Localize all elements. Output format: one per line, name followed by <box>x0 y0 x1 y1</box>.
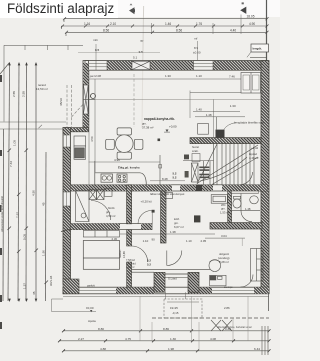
svg-text:2.55: 2.55 <box>22 91 26 97</box>
small door arc at bath <box>138 211 152 225</box>
dolgozó door arc <box>241 275 254 288</box>
svg-text:37,38 m²: 37,38 m² <box>142 126 153 130</box>
level mark +0.00 <box>164 125 177 133</box>
svg-text:1.16: 1.16 <box>84 22 90 26</box>
mid wall (bath top) <box>71 185 268 191</box>
svg-text:4,49 m²: 4,49 m² <box>249 156 259 160</box>
WC door arc <box>241 211 252 222</box>
stair door arc <box>240 172 253 185</box>
understair shelf text bars <box>184 155 209 179</box>
svg-text:pe=2.08: pe=2.08 <box>90 74 101 78</box>
stair top wall <box>190 130 261 144</box>
kitchen fridge cabinets <box>74 136 86 159</box>
svg-text:90: 90 <box>152 238 156 242</box>
svg-text:útburkolat széle, kocsibeálló: útburkolat széle, kocsibeálló <box>0 195 4 232</box>
kitchen dim 8.48 <box>150 180 185 182</box>
right witness line to top <box>266 0 268 61</box>
svg-text:1.90: 1.90 <box>42 250 46 256</box>
hall door arc to vestibule <box>167 251 182 266</box>
dolgozó label <box>218 234 230 310</box>
svg-text:Földszinti alaprajz: Földszinti alaprajz <box>7 1 114 16</box>
dashed road line <box>152 317 269 319</box>
top dimension ticks <box>61 17 269 34</box>
faint level line <box>78 52 160 54</box>
svg-text:S.Lásd: S.Lásd <box>168 277 177 281</box>
section dashed line <box>89 98 261 100</box>
WC lintel band <box>232 191 259 194</box>
top wall window right <box>194 64 214 67</box>
svg-text:Apola: Apola <box>88 319 96 323</box>
bed <box>83 241 119 270</box>
wardrobe label box <box>247 44 269 57</box>
west wall upper (living) <box>83 61 89 132</box>
svg-text:hálósz.: hálósz. <box>118 249 122 258</box>
svg-text:4,59 m²: 4,59 m² <box>106 214 116 218</box>
svg-text:5.1: 5.1 <box>133 56 138 60</box>
svg-text:4.50: 4.50 <box>32 190 36 196</box>
level mark mfn <box>93 37 201 55</box>
title bar background <box>0 0 280 17</box>
kitchen dim 4.96 <box>89 161 160 163</box>
leader diagonal top-left <box>0 63 10 75</box>
svg-text:-0,15: -0,15 <box>172 311 179 315</box>
hall bottom wall line <box>132 269 210 272</box>
bottom wall band <box>63 279 269 294</box>
svg-text:8.80: 8.80 <box>98 327 104 331</box>
extra rotated numbers <box>13 140 46 256</box>
dolgozó desk <box>210 275 226 286</box>
svg-text:9,28 m²: 9,28 m² <box>219 260 229 264</box>
svg-text:8.48: 8.48 <box>162 177 168 181</box>
bath shelf edge <box>151 211 153 225</box>
west wall lower <box>61 128 73 284</box>
plinth outer line <box>63 296 269 298</box>
svg-text:6.44: 6.44 <box>254 347 260 351</box>
svg-text:1.05: 1.05 <box>13 140 17 146</box>
svg-text:5.2: 5.2 <box>147 263 151 267</box>
stair small boxes <box>192 154 200 162</box>
svg-text:1,53 m²: 1,53 m² <box>220 211 230 215</box>
eaves line top right <box>250 56 267 58</box>
svg-text:2.10: 2.10 <box>110 22 116 26</box>
north arrow icon <box>240 2 246 14</box>
interior line below top wall <box>89 78 241 80</box>
svg-text:1.10: 1.10 <box>143 239 149 243</box>
hall label <box>174 217 184 229</box>
svg-text:8.86: 8.86 <box>163 327 169 331</box>
svg-text:6,07 m²: 6,07 m² <box>174 225 184 229</box>
entrance vestibule stubs <box>154 272 199 292</box>
witness lines to bottom dims <box>140 296 248 351</box>
lower wing top wall <box>63 128 89 132</box>
dark appliance marks <box>185 171 189 178</box>
svg-text:falban tokozódott szerelvények: falban tokozódott szerelvények <box>150 193 185 196</box>
svg-text:+0,20 kő: +0,20 kő <box>141 200 153 204</box>
svg-text:4.88: 4.88 <box>100 347 106 351</box>
svg-text:48/19: 48/19 <box>59 98 63 106</box>
speaker icon <box>129 3 135 14</box>
west upper french door X <box>83 85 95 114</box>
svg-text:7.46: 7.46 <box>229 75 235 79</box>
bottom dimension lines <box>59 331 269 351</box>
scan fold line <box>142 6 145 62</box>
svg-text:nappali-konyha-étk.: nappali-konyha-étk. <box>144 117 175 121</box>
WC fixtures <box>230 194 260 211</box>
svg-text:13,50 m²: 13,50 m² <box>36 87 48 91</box>
bedroom door arc <box>132 246 148 262</box>
svg-text:2.27: 2.27 <box>78 337 84 341</box>
svg-text:5.05: 5.05 <box>23 234 27 240</box>
svg-text:0.86: 0.86 <box>225 327 231 331</box>
svg-text:1.76: 1.76 <box>196 22 202 26</box>
radiator left of WC <box>211 195 227 204</box>
svg-text:parkét: parkét <box>87 284 95 288</box>
svg-text:1.37: 1.37 <box>23 283 27 289</box>
svg-text:9.5: 9.5 <box>139 50 144 54</box>
stairs <box>197 144 258 185</box>
left margin clipped marks <box>0 75 2 329</box>
svg-text:8.9: 8.9 <box>194 46 199 50</box>
svg-text:19×25: 19×25 <box>170 306 178 310</box>
hall basin <box>164 193 173 199</box>
dining table <box>106 128 143 159</box>
svg-text:1.30: 1.30 <box>170 337 176 341</box>
svg-text:±0,00: ±0,00 <box>86 306 94 310</box>
svg-text:mf: mf <box>194 37 197 41</box>
bedroom right wall segments <box>127 230 132 246</box>
svg-text:45: 45 <box>32 291 36 295</box>
top wall band <box>85 61 268 71</box>
small 5.2 marks near pantry <box>173 172 177 180</box>
svg-text:csempe: csempe <box>224 286 233 289</box>
road X marks <box>211 320 232 331</box>
svg-text:90/1.94: 90/1.94 <box>49 275 53 286</box>
svg-text:7.97: 7.97 <box>16 212 20 218</box>
hall left wall <box>161 191 166 243</box>
svg-text:1.46: 1.46 <box>165 22 171 26</box>
svg-text:4.08: 4.08 <box>210 337 216 341</box>
top wall window left <box>85 61 107 71</box>
svg-text:4.40: 4.40 <box>230 28 236 32</box>
bath door arc <box>91 201 111 221</box>
svg-text:1.10: 1.10 <box>196 74 202 78</box>
svg-text:3.04: 3.04 <box>221 234 227 238</box>
svg-text:2.55: 2.55 <box>12 91 16 97</box>
svg-text:14,86: 14,86 <box>122 251 126 258</box>
wardrobe top right <box>241 73 261 94</box>
bottom dim arrows/ticks <box>58 329 271 352</box>
kitchen counter <box>95 161 147 186</box>
bedroom top wall <box>71 224 153 230</box>
top dimension line 1 <box>62 19 268 36</box>
svg-text:1.30: 1.30 <box>230 104 236 108</box>
svg-text:5.2: 5.2 <box>173 176 177 180</box>
wall fixture circle <box>91 94 96 99</box>
svg-text:±0.00: ±0.00 <box>193 51 201 55</box>
svg-text:1.38: 1.38 <box>170 230 176 234</box>
dolgozó dim line <box>205 237 245 239</box>
svg-text:18.05: 18.05 <box>247 15 255 19</box>
svg-text:4,98 m²: 4,98 m² <box>126 266 135 269</box>
WC bottom wall <box>194 215 262 229</box>
porch steps <box>166 292 200 302</box>
svg-text:1.48: 1.48 <box>206 113 212 117</box>
porch dashed outline <box>164 299 202 318</box>
svg-text:up: up <box>140 39 144 43</box>
svg-text:8.56: 8.56 <box>103 28 109 32</box>
roof overhang dashed lines <box>67 85 91 127</box>
svg-text:1.10: 1.10 <box>186 239 192 243</box>
stair upper cabinet <box>198 124 209 135</box>
kitchen right end line <box>159 155 161 185</box>
dolgozó wardrobe <box>251 249 264 282</box>
level marks below house <box>86 306 96 323</box>
left dim arrowheads <box>8 62 37 302</box>
living room label <box>142 117 175 130</box>
svg-text:1.40: 1.40 <box>196 107 202 111</box>
WC left wall <box>228 191 232 223</box>
label leader curve <box>224 123 237 131</box>
svg-text:szab.: szab. <box>192 149 199 153</box>
right wall band <box>261 61 269 294</box>
washer dryer <box>89 189 112 200</box>
svg-text:2.05: 2.05 <box>201 239 207 243</box>
bedroom closet <box>83 231 119 238</box>
svg-text:2.86: 2.86 <box>224 306 230 310</box>
bottom dim numbers <box>78 327 260 351</box>
svg-text:1.48: 1.48 <box>245 207 251 211</box>
svg-text:+0,00: +0,00 <box>169 125 177 129</box>
svg-text:4.59: 4.59 <box>90 136 94 142</box>
svg-text:útburkolat széle, burkolat von: útburkolat széle, burkolat vonal <box>217 326 252 329</box>
tile label block <box>126 259 136 269</box>
svg-text:4.96: 4.96 <box>114 158 120 162</box>
svg-text:Étkg.gő. konyha: Étkg.gő. konyha <box>118 165 140 170</box>
kitchen left lines <box>88 70 90 184</box>
svg-text:4.90: 4.90 <box>249 22 255 26</box>
witness line at stair top <box>197 41 199 60</box>
right wall foot line <box>268 294 270 311</box>
svg-text:45: 45 <box>42 202 46 206</box>
stair labels <box>192 145 259 160</box>
svg-text:mfn: mfn <box>93 38 98 42</box>
svg-text:lengőt.: lengőt. <box>253 47 263 51</box>
bedroom label <box>118 249 126 258</box>
interior dims above line <box>90 74 235 79</box>
svg-text:7.34: 7.34 <box>9 161 13 167</box>
left vertical dimension lines <box>3 63 46 301</box>
svg-text:8.5: 8.5 <box>95 48 100 52</box>
svg-text:8.56: 8.56 <box>176 28 182 32</box>
right end witness cluster <box>262 326 268 355</box>
top wall window X <box>132 61 150 69</box>
left margin rotated text column <box>0 195 4 232</box>
svg-text:+1,44: +1,44 <box>251 146 259 150</box>
understair storage <box>183 161 214 185</box>
top dimension numbers <box>84 15 255 33</box>
eaves corner outline <box>52 299 97 312</box>
terrace label <box>36 83 48 91</box>
terrace outline <box>0 45 83 129</box>
WC label <box>220 203 251 215</box>
svg-text:4.75: 4.75 <box>125 337 131 341</box>
bathroom shower <box>76 191 90 222</box>
svg-text:Lengőajtós lámellás szekr.: Lengőajtós lámellás szekr. <box>234 121 266 125</box>
porch marks <box>170 306 179 315</box>
bath right wall <box>127 185 132 224</box>
section dashed vertical <box>133 74 135 127</box>
bath label <box>106 206 116 218</box>
tick marks on left dim lines <box>8 149 49 285</box>
hall dim line <box>120 233 215 235</box>
upper right dim lines <box>190 92 265 94</box>
svg-text:1.98: 1.98 <box>168 347 174 351</box>
dolgozó chair <box>209 260 221 272</box>
svg-text:1.30: 1.30 <box>165 74 171 78</box>
left dim rotated numbers <box>9 91 63 295</box>
